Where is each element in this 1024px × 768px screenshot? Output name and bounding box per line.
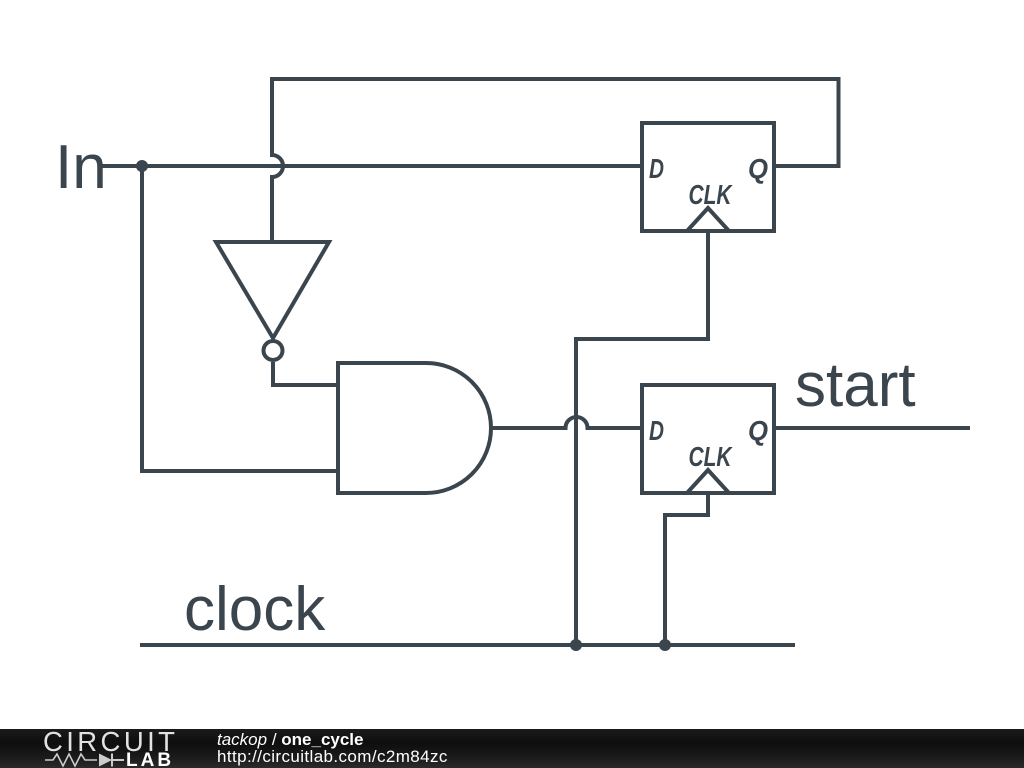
svg-text:In: In [55, 133, 107, 202]
CircuitLab logo resistor symbol [45, 754, 97, 766]
junction node: In branch [136, 160, 148, 172]
svg-text:CLK: CLK [689, 179, 733, 210]
inverter (NOT gate) triangle [216, 242, 329, 338]
wire: inverter output down then right to AND gate upper input [273, 362, 338, 385]
svg-text:D: D [649, 153, 664, 184]
svg-text:LAB: LAB [126, 750, 174, 768]
svg-text:clock: clock [184, 575, 326, 644]
inverter bubble [264, 341, 283, 360]
svg-text:D: D [649, 415, 664, 446]
svg-text:start: start [795, 351, 916, 420]
wire: DFF2 CLK down, left, and down to clock net [665, 493, 708, 645]
wire: In branch down to AND gate lower input [142, 166, 338, 471]
wire: In net horizontal to D of DFF1 [100, 164, 642, 168]
svg-text:CLK: CLK [689, 441, 733, 472]
wire: DFF1 CLK down, left, and down to clock net [576, 231, 708, 645]
svg-text:Q: Q [748, 153, 768, 184]
junction node: clock to DFF1 branch [570, 639, 582, 651]
CircuitLab logo diode symbol [99, 754, 112, 767]
DFF1 clock edge triangle [687, 208, 729, 231]
footer bar [0, 729, 1024, 768]
wire: Q of DFF2 to start output [774, 426, 970, 430]
junction node: clock to DFF2 branch [659, 639, 671, 651]
svg-text:http://circuitlab.com/c2m84zc: http://circuitlab.com/c2m84zc [217, 747, 448, 766]
D flip-flop DFF1 box [642, 123, 774, 231]
DFF2 clock edge triangle [687, 470, 729, 493]
wire: clock net horizontal [140, 643, 795, 647]
D flip-flop DFF2 box [642, 385, 774, 493]
AND gate body [338, 363, 491, 493]
wire: AND output to D of DFF2 (hop over clock branch vertical) [491, 417, 642, 428]
wire: feedback from Q of DFF1 up over top and down to inverter input (with hop over In wire) [272, 79, 839, 242]
svg-text:Q: Q [748, 415, 768, 446]
